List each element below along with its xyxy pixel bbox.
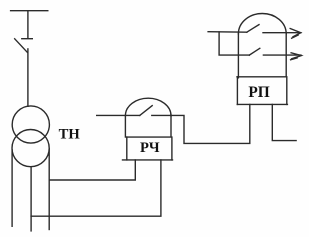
relay RP label box: [237, 77, 286, 105]
wire secondary lead middle: [30, 167, 32, 231]
svg-text:ТН: ТН: [59, 127, 81, 143]
RP contact 2 arrowhead: [291, 53, 302, 60]
RP contact 1 arrowhead: [290, 29, 301, 39]
RCh contact right lead: [152, 114, 171, 116]
relay RCh label box: [127, 137, 172, 160]
wire RCh contact output to RP coil: [171, 105, 250, 144]
relay RCh body box: [125, 115, 171, 137]
breaker fixed contact bar: [22, 38, 33, 40]
wire from breaker to transformer TN primary: [27, 49, 29, 106]
wire junction drop to RP contact 2: [219, 32, 249, 55]
RP contact 1 blade: [247, 25, 259, 33]
svg-text:РЧ: РЧ: [140, 140, 160, 156]
breaker blade (open switch): [15, 39, 28, 53]
wire from busbar to breaker fixed contact: [27, 11, 29, 38]
RCh contact blade: [140, 106, 152, 116]
relay RP label box bottom: [237, 103, 287, 105]
wire from node to RCh coil left terminal: [49, 160, 135, 180]
wire into RCh contact (left lead): [97, 114, 140, 116]
transformer TN primary winding (upper circle): [12, 106, 49, 143]
RP contact 2 blade: [249, 48, 260, 55]
svg-text:РП: РП: [248, 84, 269, 101]
wire secondary lead right / node to RCh: [48, 149, 50, 230]
relay RCh label box bottom: [123, 159, 173, 161]
RP contact 1 output lead: [263, 32, 301, 34]
relay RCh dome: [125, 98, 171, 116]
wire from middle lead to RCh coil right terminal: [31, 160, 161, 216]
relay RP body box: [237, 34, 286, 78]
transformer TN secondary winding (lower circle): [12, 130, 49, 167]
relay RP dome: [238, 14, 286, 34]
wire secondary lead left: [11, 150, 13, 226]
wire RP coil right terminal to supply: [272, 105, 296, 141]
busbar: [11, 10, 48, 12]
wire feed to RP contacts: [208, 31, 247, 34]
RP contact 2 output lead: [263, 54, 301, 56]
